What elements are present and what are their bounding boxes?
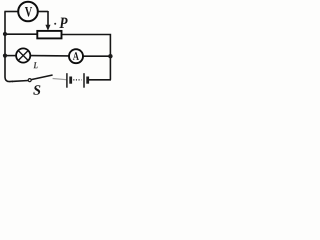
wire: lamp to ammeter (30, 55, 69, 57)
wire: ammeter to right rail (83, 55, 111, 57)
wire: rheostat left lead from left rail (5, 33, 37, 35)
wire: battery to bottom-right corner (89, 79, 111, 81)
battery cell 2 long plate (83, 73, 85, 88)
battery cell 2 short thick plate (86, 77, 89, 84)
node: junction dot left rail / lamp branch (3, 54, 7, 58)
battery dotted continuation (73, 79, 81, 81)
node: junction dot left rail / rheostat lead (3, 32, 7, 36)
lamp label L (34, 62, 38, 68)
wire: top-left horizontal into voltmeter (4, 11, 18, 13)
speck dot left of P (54, 23, 56, 25)
wire: rheostat right lead to right rail and down (61, 35, 110, 80)
wire: switch contact to battery (faded in scan) (53, 79, 67, 80)
rheostat value label P (59, 18, 67, 28)
battery cell 1 long plate (66, 73, 68, 88)
wire: lamp branch left stub (5, 55, 16, 57)
voltmeter V body circle (18, 2, 38, 22)
background (0, 0, 118, 96)
switch S pivot circle (28, 79, 31, 82)
rheostat P wiper arrow (45, 25, 50, 31)
ammeter A body circle (69, 49, 83, 63)
voltmeter V dial letter (25, 7, 32, 17)
switch label S (33, 85, 40, 95)
ammeter A dial letter (73, 52, 79, 60)
wire: voltmeter right to wiper bend (38, 11, 48, 13)
wire: left rail from voltmeter row down to bottom-left corner (rounded) (5, 12, 13, 82)
switch S lever blade (31, 75, 52, 80)
lamp L bulb circle (16, 48, 30, 62)
rheostat (sliding resistor) P body (37, 31, 61, 39)
battery cell 1 short thick plate (69, 77, 72, 84)
lamp filament X (18, 51, 28, 61)
node: junction dot right rail / ammeter wire (108, 54, 112, 58)
wire: wiper vertical drop (47, 11, 49, 26)
wire: bottom rail left segment to switch pivot (12, 80, 28, 83)
